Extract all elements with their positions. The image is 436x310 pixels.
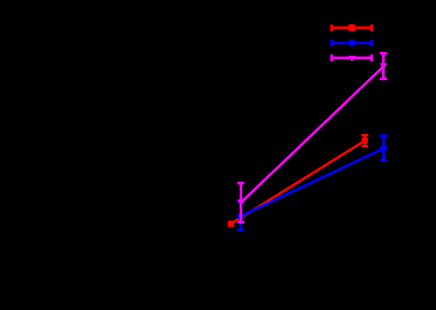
- magenta series line: [241, 66, 384, 202]
- red series errorbar point 2: [361, 135, 368, 146]
- red series errorbar point 1: [228, 221, 234, 227]
- blue series errorbar point 1: [237, 203, 244, 230]
- blue series errorbar point 2: [380, 136, 387, 161]
- blue series line: [241, 148, 384, 216]
- red series line: [231, 141, 365, 224]
- magenta series errorbar point 2: [380, 53, 388, 79]
- legend entry blue: [331, 39, 372, 46]
- magenta series errorbar point 1: [237, 183, 245, 222]
- legend entry red: [331, 24, 372, 31]
- legend entry magenta: [331, 55, 372, 62]
